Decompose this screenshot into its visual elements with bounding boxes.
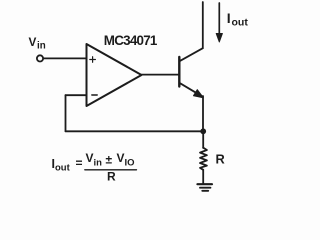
ground [197, 184, 212, 191]
svg-text:R: R [216, 152, 225, 167]
label MC34071 [104, 33, 158, 48]
wire feedback horizontal [66, 130, 204, 132]
op-amp noninverting input + [90, 57, 96, 63]
svg-text:in: in [94, 157, 103, 168]
wire feedback to inverting input [66, 94, 87, 96]
op-amp U1 [87, 44, 142, 106]
transistor Q1 [179, 48, 203, 97]
wire op-amp output to transistor base [142, 74, 180, 76]
svg-text:=: = [76, 156, 83, 170]
svg-text:out: out [232, 17, 249, 29]
svg-text:MC34071: MC34071 [104, 33, 158, 48]
wire Vin to op-amp + input [43, 57, 86, 59]
wire feedback vertical [65, 95, 67, 131]
wire emitter down to node [202, 96, 204, 131]
wire resistor to ground [202, 170, 204, 184]
wire node to resistor [202, 131, 204, 148]
svg-text:V: V [86, 151, 94, 165]
current arrow Iout [216, 3, 222, 42]
formula fraction bar [85, 169, 137, 171]
junction node [200, 128, 206, 134]
svg-text:in: in [37, 41, 46, 52]
svg-text:±: ± [106, 153, 113, 167]
svg-text:R: R [107, 170, 116, 184]
svg-text:V: V [29, 35, 37, 49]
svg-text:IO: IO [125, 157, 135, 168]
wire collector up [202, 2, 204, 48]
label R [216, 152, 225, 167]
input terminal circle [37, 55, 43, 61]
op-amp inverting input - [92, 94, 97, 96]
svg-text:V: V [117, 151, 125, 165]
label Iout [227, 10, 249, 29]
resistor R [200, 148, 207, 170]
svg-text:I: I [227, 10, 231, 26]
node Vin label [29, 35, 46, 52]
svg-text:out: out [55, 163, 71, 174]
formula Iout = (Vin ± VIO)/R [52, 151, 135, 184]
